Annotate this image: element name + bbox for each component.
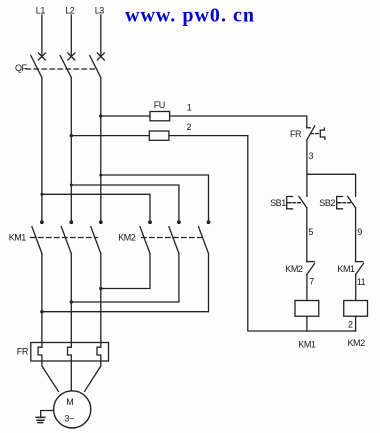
interlock contact KM1 blade <box>356 264 364 275</box>
wire KM2 pole1 to merge line 1 <box>101 254 150 289</box>
contactor KM2 pole3 terminal dot <box>207 220 211 224</box>
wire phase2 QF to KM1 contact <box>70 78 72 221</box>
wire L1 drop <box>41 15 43 57</box>
node junction branch tap phase2 <box>70 184 73 187</box>
breaker QF pole 3 blade <box>90 56 101 78</box>
pushbutton SB2 dashed link <box>343 202 351 204</box>
wire phase1 QF to KM1 contact <box>41 78 43 221</box>
svg-text:3~: 3~ <box>64 413 74 423</box>
pushbutton SB1 actuator <box>287 197 293 209</box>
contactor KM2 pole1 blade <box>140 227 150 254</box>
contactor KM2 pole2 terminal dot <box>177 220 181 224</box>
wire L2 drop <box>70 15 72 57</box>
overload FR heater phase3 <box>97 347 101 361</box>
terminal x mark L3 <box>97 53 104 60</box>
wire coil KM1 to bus <box>306 316 308 331</box>
interlock contact KM1 NC tick <box>356 261 363 263</box>
wire phase3 branch to KM2 contact pole3 <box>101 175 209 220</box>
wire coil KM2 to bus <box>355 316 357 331</box>
contactor KM1 pole1 blade <box>32 227 42 254</box>
svg-text:FU: FU <box>154 100 165 110</box>
svg-text:1: 1 <box>187 103 192 113</box>
svg-text:L1: L1 <box>36 5 46 15</box>
contactor KM2 pole1 terminal dot <box>148 220 152 224</box>
wire KM1 pole3 down to FR heater <box>100 254 102 348</box>
svg-text:5: 5 <box>308 227 313 237</box>
fuse FU1 body <box>150 112 170 121</box>
wire FR to motor left <box>42 361 59 392</box>
svg-text:QF: QF <box>15 63 28 73</box>
node junction merge 3 <box>40 310 43 313</box>
relay contact FR dashed link <box>311 133 320 135</box>
relay contact FR blade <box>307 126 315 140</box>
relay FR trip symbol <box>320 128 325 139</box>
svg-text:FR: FR <box>290 129 302 139</box>
wire fuse FU1 to FR contact <box>170 116 307 128</box>
svg-text:KM1: KM1 <box>9 233 27 243</box>
terminal x mark L1 <box>38 53 45 60</box>
wire SB2 to KM1 interlock <box>355 208 357 262</box>
coil KM2 body <box>344 301 368 317</box>
node junction fuse line 2 tap <box>70 134 73 137</box>
wire phase3 QF to KM1 contact <box>100 78 102 221</box>
relay contact FR NC tick <box>307 127 311 129</box>
wire branch to SB2 <box>307 174 356 196</box>
wire control line 1 to fuse FU1 <box>101 115 150 117</box>
fuse FU2 body <box>149 131 169 140</box>
contactor KM1 pole2 blade <box>61 227 71 254</box>
coil KM1 body <box>295 301 319 317</box>
wire KM1 interlock to coil KM2 <box>355 275 357 301</box>
svg-text:M: M <box>66 397 73 407</box>
node junction fuse line 1 tap <box>99 114 102 117</box>
svg-text:L3: L3 <box>95 5 105 15</box>
svg-text:KM2: KM2 <box>348 338 366 348</box>
node junction branch tap phase1 <box>40 193 43 196</box>
overload FR heater phase1 <box>38 347 42 361</box>
wire KM1 pole2 down to FR heater <box>70 254 72 348</box>
svg-text:2: 2 <box>348 319 353 329</box>
interlock contact KM2 NC tick <box>307 261 314 263</box>
contactor KM2 pole2 blade <box>169 227 179 254</box>
svg-text:KM2: KM2 <box>285 264 303 274</box>
wire FR to motor right <box>85 361 101 392</box>
wire phase2 branch to KM2 contact pole2 <box>71 185 179 220</box>
contactor KM1 pole2 terminal dot <box>69 220 73 224</box>
terminal x mark L2 <box>68 53 75 60</box>
interlock contact KM2 blade <box>307 264 315 275</box>
breaker QF dashed link <box>26 68 97 70</box>
wire motor to ground <box>41 411 54 418</box>
contactor KM1 pole3 terminal dot <box>99 220 103 224</box>
contactor KM1 dashed link <box>31 237 98 239</box>
svg-text:SB1: SB1 <box>270 198 286 208</box>
wire SB1 to KM2 interlock <box>306 208 308 262</box>
contactor KM1 pole3 blade <box>91 227 101 254</box>
motor M circle <box>54 391 91 428</box>
overload relay FR box <box>31 343 109 362</box>
wire KM2 pole2 to merge line 2 <box>71 254 179 303</box>
svg-text:KM2: KM2 <box>118 233 136 243</box>
pushbutton SB2 blade <box>348 196 356 207</box>
wire L3 drop <box>100 15 102 57</box>
svg-text:SB2: SB2 <box>319 198 335 208</box>
wire fuse FU2 to bottom bus <box>169 136 356 331</box>
svg-text:L2: L2 <box>65 5 75 15</box>
pushbutton SB1 dashed link <box>293 202 302 204</box>
svg-text:KM1: KM1 <box>337 264 355 274</box>
svg-text:11: 11 <box>357 277 366 287</box>
wire control line 2 to fuse FU2 <box>71 135 149 137</box>
wire phase1 branch to KM2 contact pole1 <box>42 194 150 220</box>
breaker QF pole 1 blade <box>31 56 42 78</box>
node junction merge 1 <box>99 287 102 290</box>
wire KM1 pole1 down to FR heater <box>41 254 43 348</box>
node junction branch tap phase3 <box>99 174 102 177</box>
svg-text:FR: FR <box>17 346 29 356</box>
breaker QF pole 2 blade <box>60 56 71 78</box>
overload FR heater phase2 <box>68 347 72 361</box>
contactor KM2 pole3 blade <box>199 227 209 254</box>
svg-text:KM1: KM1 <box>298 340 316 350</box>
contactor KM1 pole1 terminal dot <box>40 220 44 224</box>
wire KM2 interlock to coil KM1 <box>306 275 308 301</box>
pushbutton SB2 actuator <box>337 197 343 209</box>
svg-text:3: 3 <box>309 151 314 161</box>
wire KM2 pole3 to merge line 3 <box>42 254 209 312</box>
node junction merge 2 <box>70 300 73 303</box>
pushbutton SB1 blade <box>299 196 307 207</box>
svg-text:www. pw0. cn: www. pw0. cn <box>125 5 254 27</box>
wire FR to branch node <box>306 140 308 197</box>
svg-text:9: 9 <box>357 227 362 237</box>
svg-text:2: 2 <box>187 122 192 132</box>
svg-text:7: 7 <box>309 276 314 286</box>
contactor KM2 dashed link <box>142 237 206 239</box>
ground symbol <box>36 417 45 422</box>
wire FR to motor middle <box>70 361 72 390</box>
